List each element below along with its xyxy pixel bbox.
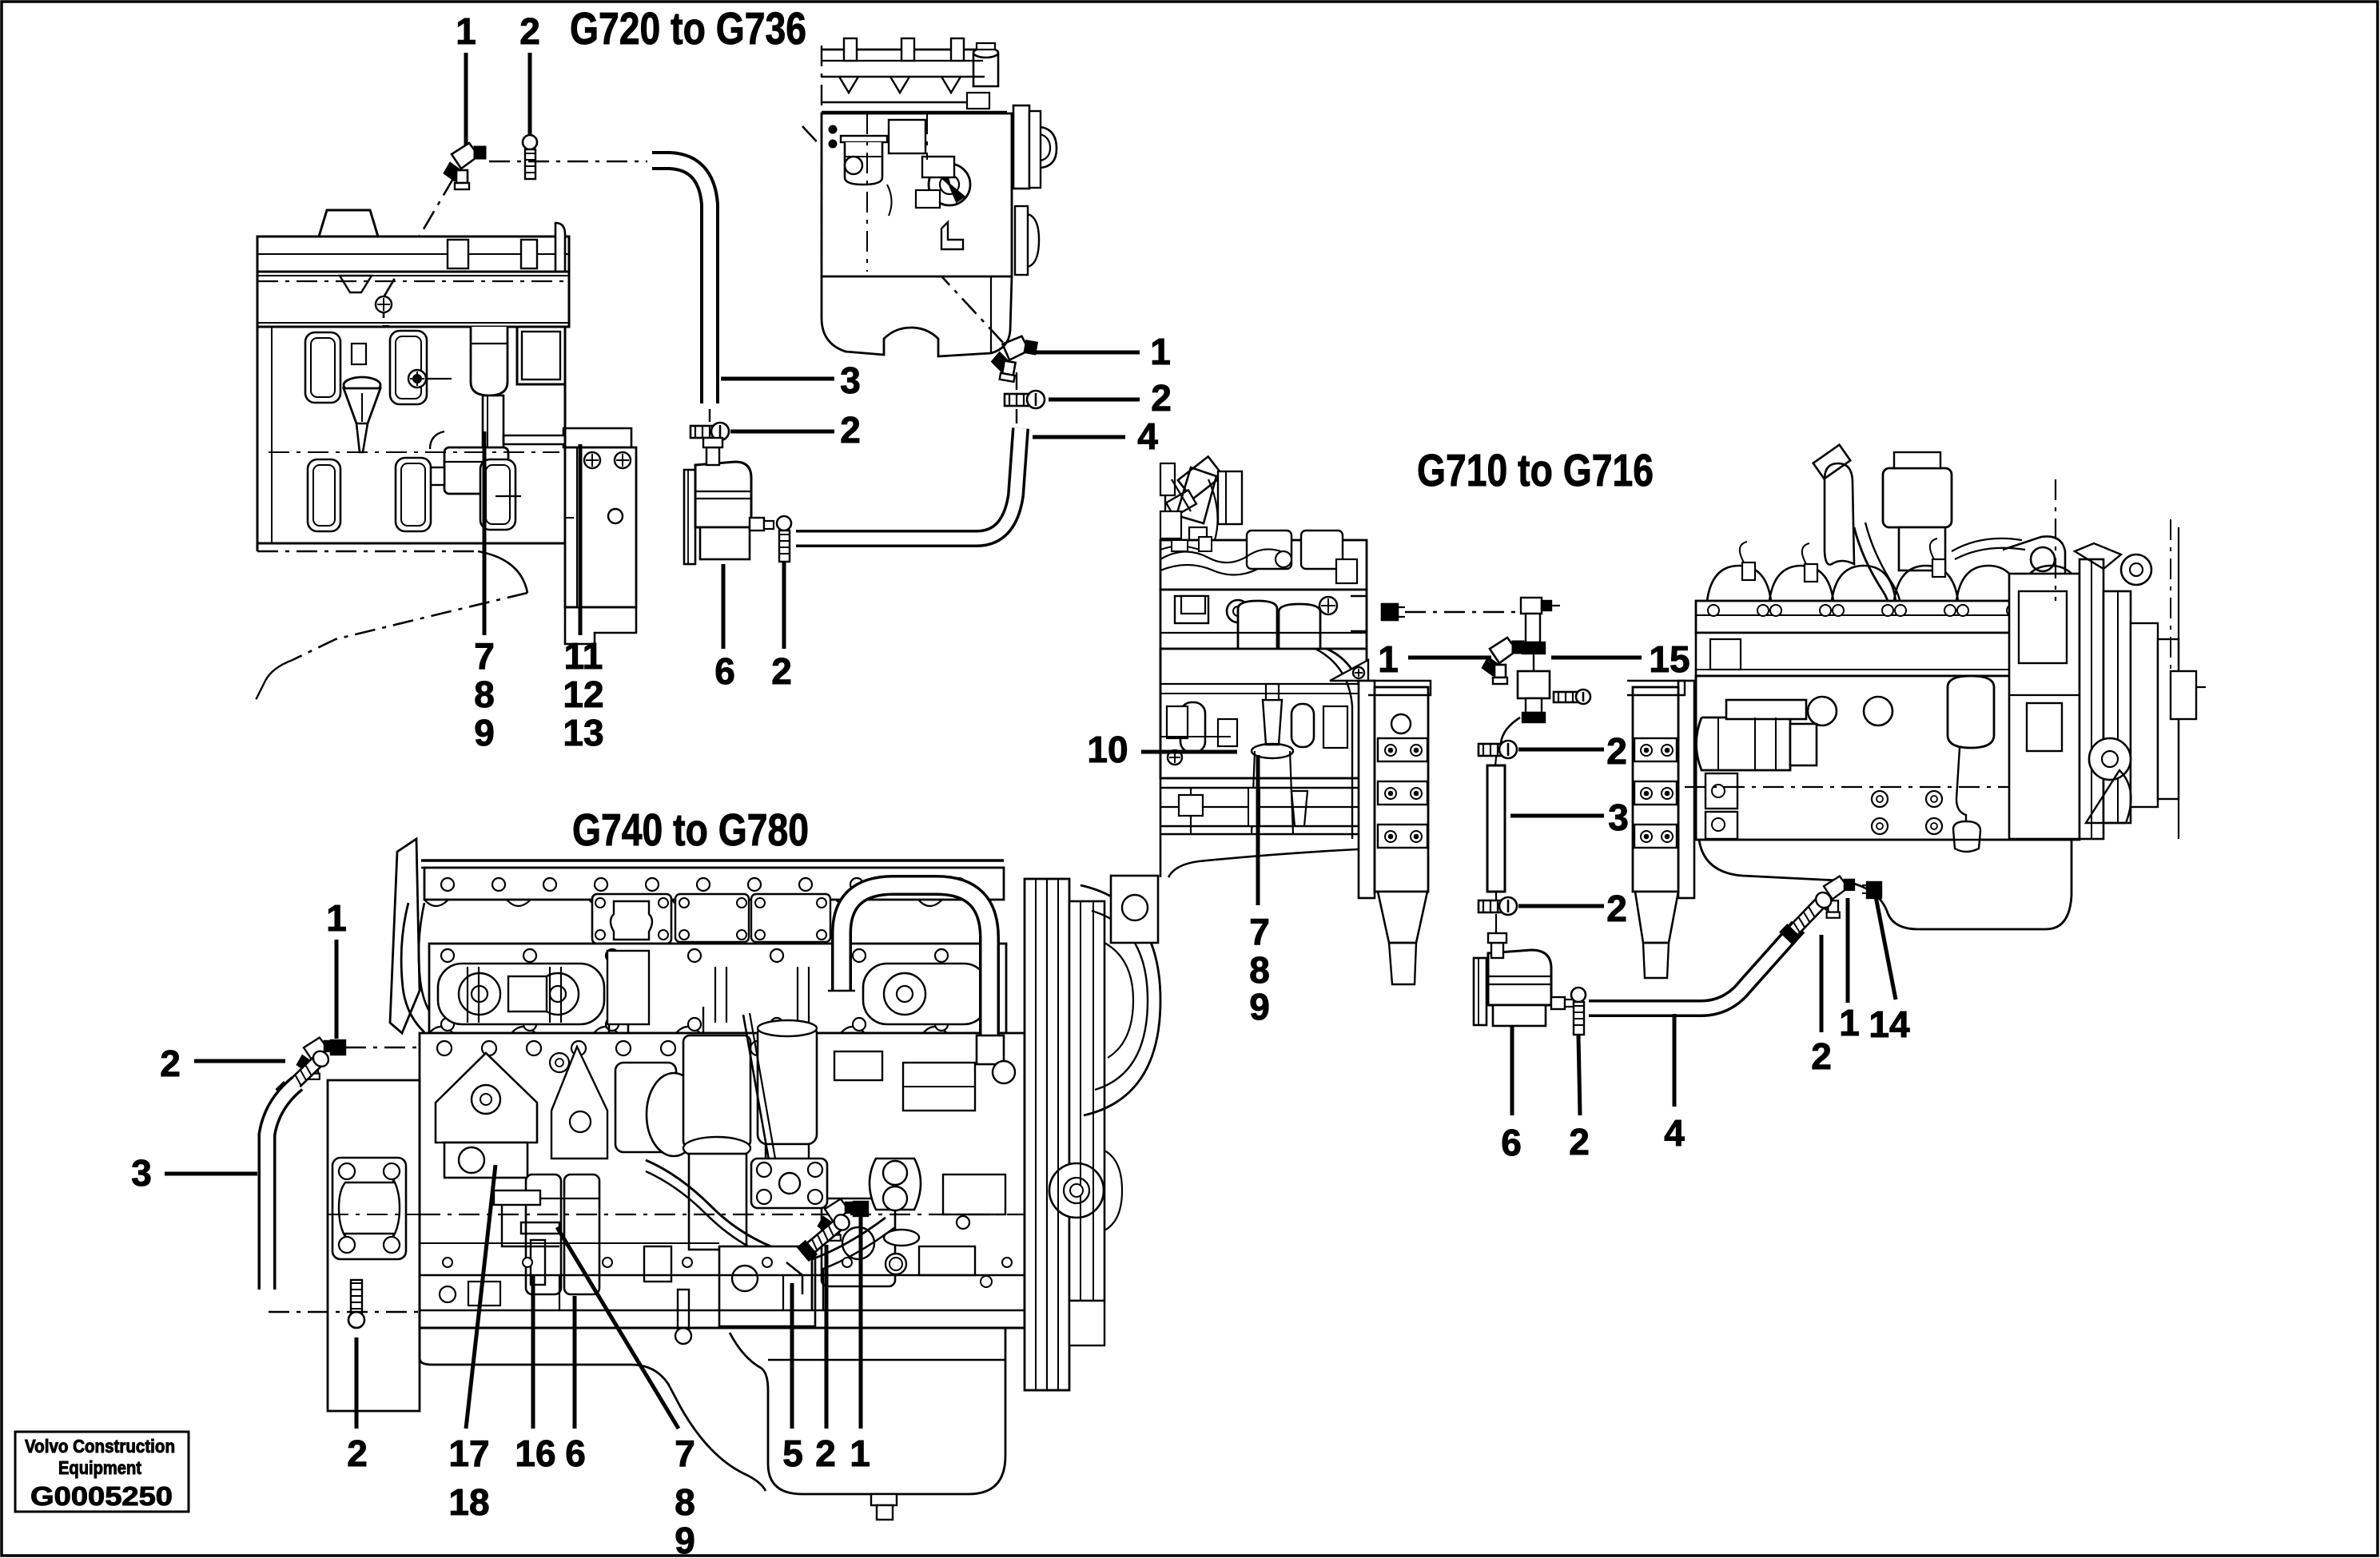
- svg-text:3: 3: [1608, 797, 1629, 838]
- part 2 clamp on hose G710 right: [1781, 888, 1834, 944]
- leader line 4 G710: [1673, 1014, 1677, 1107]
- svg-text:8: 8: [675, 1481, 695, 1523]
- part 2 screw mid: [691, 426, 720, 438]
- svg-text:1: 1: [456, 10, 476, 52]
- svg-text:2: 2: [1569, 1121, 1590, 1163]
- svg-text:4: 4: [1664, 1112, 1685, 1154]
- leader line 16: [531, 1275, 535, 1429]
- part 2 screw top: [523, 135, 537, 149]
- construction line from elbow down to engine: [384, 177, 454, 297]
- construction line from elbow to hose: [489, 161, 647, 163]
- svg-text:1: 1: [1839, 1002, 1860, 1043]
- part 3 tube G710: [1487, 765, 1505, 892]
- part 1 elbow fitting under pan: [1817, 876, 1855, 918]
- part 2 screw G710 top: [1479, 744, 1508, 756]
- construction dashes fitting column: [1016, 372, 1017, 390]
- svg-text:G0005250: G0005250: [30, 1481, 173, 1511]
- part 1 elbow at tee: [1482, 638, 1524, 684]
- leader line 2 at pump G710: [1578, 1035, 1580, 1115]
- construction diagonal across engine B: [802, 126, 1005, 345]
- svg-text:2: 2: [519, 10, 540, 52]
- svg-text:2: 2: [1151, 377, 1172, 419]
- oil pan G740: [420, 1328, 1005, 1520]
- svg-text:2: 2: [347, 1433, 368, 1474]
- part 5 hose end: [786, 1262, 802, 1294]
- svg-text:2: 2: [1606, 888, 1627, 929]
- svg-text:G710 to G716: G710 to G716: [1417, 445, 1654, 496]
- svg-text:8: 8: [474, 674, 495, 715]
- svg-text:6: 6: [714, 650, 735, 692]
- svg-text:13: 13: [563, 712, 603, 753]
- svg-text:9: 9: [1249, 986, 1270, 1027]
- svg-text:12: 12: [563, 674, 603, 715]
- part 4 drain hose G720: [796, 428, 1021, 539]
- leader line 1 left G740: [335, 940, 339, 1039]
- leader line 2 left G740: [194, 1059, 285, 1063]
- Volvo Construction Equipment label box: [15, 1432, 189, 1512]
- leader line 1 under pan: [1846, 898, 1850, 1003]
- svg-text:16: 16: [515, 1433, 555, 1474]
- svg-text:2: 2: [160, 1043, 181, 1084]
- svg-text:18: 18: [448, 1481, 489, 1523]
- leader line 10: [1141, 750, 1237, 754]
- engine block G720 right view: [822, 38, 1057, 356]
- leader line 2 bottom: [355, 1337, 359, 1429]
- svg-text:9: 9: [675, 1520, 695, 1558]
- flywheel end G740 right: [1025, 876, 1160, 1390]
- svg-text:10: 10: [1087, 729, 1128, 770]
- part 3 hose G740 left: [267, 1083, 297, 1290]
- svg-text:8: 8: [1249, 949, 1270, 991]
- leader line 2 G710 top: [1518, 748, 1604, 752]
- leader line 3: [721, 377, 834, 381]
- leader line 1 G710: [1408, 656, 1491, 660]
- svg-text:G740 to G780: G740 to G780: [572, 805, 809, 856]
- leader line 2 at pump: [782, 562, 786, 649]
- part 6 pump G720: [684, 438, 774, 564]
- svg-text:6: 6: [565, 1433, 586, 1474]
- construction dash-dot left area: [269, 1311, 462, 1314]
- svg-text:1: 1: [326, 897, 347, 939]
- engine block G740 main view: [390, 839, 1025, 1344]
- leader line 6 bottom: [573, 1296, 577, 1429]
- svg-text:14: 14: [1869, 1004, 1910, 1045]
- leader line 6 G710: [1510, 1026, 1514, 1115]
- leader line 15: [1551, 656, 1642, 660]
- svg-text:15: 15: [1649, 638, 1689, 680]
- part 3 breather hose top: [652, 161, 710, 403]
- part 2 screw G710 bottom: [1479, 900, 1508, 912]
- part 15 tee fitting assembly: [1518, 598, 1560, 722]
- leader line 3 G710: [1510, 814, 1604, 818]
- svg-text:11: 11: [564, 635, 603, 677]
- left bracket plate G740: [328, 1080, 420, 1411]
- leader line 14: [1876, 896, 1896, 1000]
- leader line 4: [1033, 435, 1125, 439]
- svg-text:2: 2: [771, 650, 792, 692]
- leader line 5: [790, 1283, 794, 1429]
- leader line 6: [722, 564, 726, 649]
- part 1 elbow fitting right: [989, 332, 1038, 384]
- leader line 1 right: [1033, 351, 1140, 355]
- construction line from fitting to engine: [345, 1047, 419, 1049]
- leader line 2 right: [1049, 398, 1140, 402]
- svg-text:5: 5: [782, 1433, 803, 1474]
- svg-text:7: 7: [474, 635, 495, 677]
- svg-text:1: 1: [850, 1433, 870, 1474]
- svg-text:Volvo Construction: Volvo Construction: [25, 1436, 175, 1457]
- part 2 screw at pump G710: [1571, 988, 1586, 1002]
- part fittings right side G740 (1 and 2): [854, 1202, 868, 1216]
- engine block G710 left engine: [1160, 456, 1368, 877]
- leader line 1 bottom: [859, 1216, 863, 1429]
- svg-text:2: 2: [1811, 1035, 1832, 1077]
- svg-text:3: 3: [131, 1152, 152, 1194]
- part 14 plug fitting: [1867, 882, 1881, 898]
- leader line 2 mid: [730, 430, 834, 434]
- part 2 screw under elbow: [1005, 394, 1036, 406]
- part 1 elbow fitting top-left: [444, 143, 486, 189]
- svg-text:1: 1: [1150, 331, 1171, 372]
- engine block G710 right engine: [1685, 445, 2206, 929]
- leader line 7 G710: [1256, 755, 1260, 905]
- svg-text:3: 3: [840, 360, 861, 401]
- svg-text:4: 4: [1137, 415, 1158, 457]
- leader line 2 G710 bottom: [1518, 904, 1604, 908]
- part 1 plug fitting on engine C: [1382, 604, 1398, 620]
- svg-text:2: 2: [840, 409, 861, 451]
- part 2 bolt lower left: [351, 1280, 362, 1317]
- leader line 3 left G740: [165, 1172, 257, 1176]
- leader line 2 mid bottom: [825, 1245, 829, 1429]
- svg-text:7: 7: [1249, 911, 1270, 952]
- part 4 hose G710: [1589, 927, 1798, 1008]
- part 1 fitting with elbow G740 left: [331, 1040, 345, 1055]
- svg-text:G720 to G736: G720 to G736: [570, 3, 806, 54]
- flywheel housing G710 right engine: [1627, 681, 1694, 978]
- construction line to tee: [1405, 611, 1515, 614]
- leader line 7-8-9 bottom: [557, 1227, 679, 1429]
- svg-text:2: 2: [815, 1433, 836, 1474]
- part 2 clamp G740 left: [277, 1047, 332, 1101]
- leader line 2 top: [528, 53, 532, 137]
- leader line 17-18: [466, 1165, 496, 1429]
- flywheel housing G710 left engine: [1359, 681, 1431, 984]
- engine block G720 left side view: [254, 210, 636, 703]
- small hose from tee down: [1496, 717, 1520, 757]
- leader line 7-8-9: [483, 431, 487, 635]
- leader line 1 top: [464, 53, 468, 152]
- svg-text:Equipment: Equipment: [58, 1457, 141, 1478]
- leader line 11-12-13: [579, 444, 583, 635]
- part 6 pump G710: [1474, 933, 1574, 1026]
- leader line 2 clamp: [1820, 935, 1824, 1032]
- drain screw at tee: [1554, 692, 1583, 702]
- construction dashes at screw mid: [709, 409, 710, 422]
- svg-text:7: 7: [675, 1433, 695, 1474]
- svg-text:1: 1: [1378, 638, 1399, 680]
- svg-text:6: 6: [1501, 1122, 1522, 1163]
- svg-text:2: 2: [1606, 730, 1627, 772]
- construction dashes to pump: [1495, 892, 1497, 901]
- svg-text:17: 17: [448, 1433, 489, 1474]
- svg-text:9: 9: [474, 712, 495, 753]
- part 2 screw at pump: [777, 516, 791, 531]
